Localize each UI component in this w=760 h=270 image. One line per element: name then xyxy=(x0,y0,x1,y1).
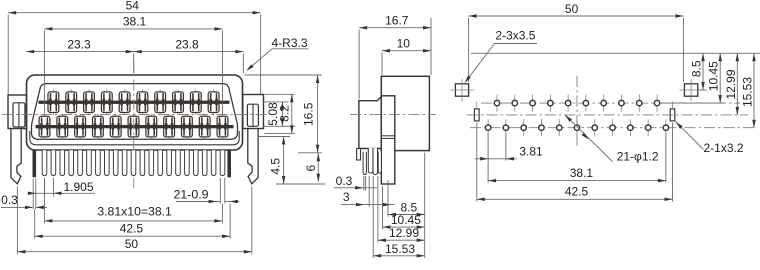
dimension 16.7 (body depth) xyxy=(358,30,360,100)
svg-text:23.3: 23.3 xyxy=(67,37,91,51)
left view: top contact row (10 contacts) xyxy=(48,89,219,115)
footprint: top reference line xyxy=(471,52,760,54)
side view: flange divider lines xyxy=(381,135,395,137)
svg-text:16.5: 16.5 xyxy=(302,102,316,126)
footprint: bottom row holes (11) xyxy=(485,119,668,136)
left view: right mounting foot xyxy=(248,129,258,184)
left view: shell inner bottom line xyxy=(30,131,239,145)
svg-text:10.45: 10.45 xyxy=(391,213,421,227)
left view: left ear slot xyxy=(13,103,25,127)
svg-text:2-3x3.5: 2-3x3.5 xyxy=(495,28,535,42)
footprint: top row holes (10) xyxy=(494,95,659,112)
dimension 10.45 (footprint vertical) xyxy=(661,102,725,104)
side view: main body xyxy=(381,76,429,150)
dimension 38.1 (contact row span) xyxy=(43,31,45,115)
svg-text:0.3: 0.3 xyxy=(336,174,353,188)
side view: shroud bottom notch xyxy=(357,149,361,161)
dimension 10.45 (side view pin offset) xyxy=(382,186,384,229)
left view: vertical centerline xyxy=(133,60,135,150)
svg-text:42.5: 42.5 xyxy=(120,222,144,236)
dimension 3 (side view) xyxy=(368,176,370,207)
footprint: top row centerline xyxy=(481,102,740,104)
footprint: bottom row centerline xyxy=(470,127,757,129)
dimension 23.3 xyxy=(133,53,135,73)
dimension 50 (foot span) xyxy=(16,187,18,255)
dimension 8.5 (side view pin offset) xyxy=(387,180,389,217)
dimension 6 xyxy=(317,153,319,181)
footprint: left slot pad 1x3.2 xyxy=(474,109,479,121)
footprint: right slot pad 1x3.2 xyxy=(670,109,675,121)
svg-text:3: 3 xyxy=(343,190,350,204)
svg-text:23.8: 23.8 xyxy=(175,37,199,51)
svg-text:10.45: 10.45 xyxy=(707,61,721,91)
left view: connector front outline (outer shell) xyxy=(27,75,243,150)
left view: top contact row band xyxy=(39,101,230,104)
left view: left mounting ear xyxy=(8,95,27,129)
dimension 10 (rear body depth) xyxy=(381,53,383,76)
svg-text:12.99: 12.99 xyxy=(389,226,419,240)
side view: front shroud xyxy=(359,97,381,149)
svg-text:16.7: 16.7 xyxy=(385,14,409,28)
side view: bent solder legs xyxy=(363,152,366,175)
svg-text:3.81x10=38.1: 3.81x10=38.1 xyxy=(97,204,172,218)
label 21-phi1.2 leader xyxy=(565,115,613,162)
left view: left shell skirt tab xyxy=(33,150,36,177)
dimension 23.8 xyxy=(134,51,244,53)
dimension 5.08 (row pitch) xyxy=(262,101,288,103)
dimension 1.905 (leg half pitch) xyxy=(44,178,46,197)
left view: right shell skirt tab xyxy=(228,150,231,177)
left view: bottom contact row (11 contacts) xyxy=(39,114,228,140)
dimension 8.5 (footprint vertical) xyxy=(699,89,707,91)
dimension 0.3 (side view) xyxy=(363,176,365,191)
svg-text:50: 50 xyxy=(125,237,139,251)
svg-text:2-1x3.2: 2-1x3.2 xyxy=(703,141,743,155)
left view: right ear slot xyxy=(247,104,258,126)
svg-text:6: 6 xyxy=(304,165,318,172)
footprint: middle centerline xyxy=(467,114,748,116)
svg-text:4.5: 4.5 xyxy=(269,158,283,175)
dimension 50 (footprint) xyxy=(468,18,470,82)
dimension 3.81 (hole pitch) xyxy=(487,133,489,183)
svg-text:38.1: 38.1 xyxy=(570,166,594,180)
left view: horizontal centerline xyxy=(2,114,268,116)
label 2-3x3.5 leader xyxy=(494,43,537,45)
side view: horizontal centerline xyxy=(350,113,436,115)
svg-text:21-0.9: 21-0.9 xyxy=(174,187,209,201)
dimension 12.99 (side view pin offset) xyxy=(377,176,379,242)
dimension 15.53 (side view pin offset) xyxy=(372,176,374,258)
label 2-1x3.2 leader xyxy=(676,122,704,150)
left view: left mounting foot xyxy=(11,129,21,184)
label 21-0.9 (leg width) leader xyxy=(219,178,221,204)
side view: mounting flange strip xyxy=(381,96,395,184)
left view: shroud cavity outline xyxy=(32,84,238,140)
dimension 3.81x10=38.1 (leg span) xyxy=(43,179,45,223)
svg-text:10: 10 xyxy=(397,37,411,51)
left view: bottom contact row band xyxy=(36,125,234,128)
dimension 38.1 (footprint row span) xyxy=(665,133,667,183)
svg-text:50: 50 xyxy=(565,2,579,16)
dimension 42.5 (skirt span) xyxy=(34,209,36,239)
svg-text:42.5: 42.5 xyxy=(565,185,589,199)
left view: right ear slot divider xyxy=(252,104,254,126)
svg-text:21-φ1.2: 21-φ1.2 xyxy=(617,149,659,163)
dimension 12.99 (footprint vertical) xyxy=(736,53,738,115)
footprint: right square pad 3x3.5 xyxy=(684,84,697,96)
dimension 0.3 (shell thickness) xyxy=(32,179,34,210)
dimension 4.5 xyxy=(258,136,290,138)
left view: left ear slot divider xyxy=(18,103,20,127)
svg-text:3.81: 3.81 xyxy=(519,145,543,159)
footprint: left square pad 3x3.5 xyxy=(455,84,468,96)
svg-text:38.1: 38.1 xyxy=(123,15,147,29)
dimension 16.5 (body height) xyxy=(245,74,323,76)
dimension 8.2 xyxy=(265,93,295,95)
label 4-R3.3 corner radius leader xyxy=(248,49,273,70)
svg-text:4-R3.3: 4-R3.3 xyxy=(271,36,307,50)
svg-text:8.5: 8.5 xyxy=(690,60,704,77)
svg-text:15.53: 15.53 xyxy=(385,242,415,256)
dimension 42.5 (footprint slot span) xyxy=(476,123,478,202)
left view: 21 solder legs comb xyxy=(42,150,225,175)
svg-text:54: 54 xyxy=(126,0,140,13)
svg-text:15.53: 15.53 xyxy=(741,77,755,107)
dimension 15.53 (footprint vertical) xyxy=(753,53,755,127)
svg-text:0.3: 0.3 xyxy=(1,193,18,207)
left view: right mounting ear xyxy=(243,95,264,129)
svg-text:1.905: 1.905 xyxy=(63,180,93,194)
svg-text:12.99: 12.99 xyxy=(724,69,738,99)
svg-text:8.2: 8.2 xyxy=(278,105,292,122)
dimension 54 (overall width) xyxy=(7,15,9,95)
footprint: vertical centerline xyxy=(576,76,578,147)
